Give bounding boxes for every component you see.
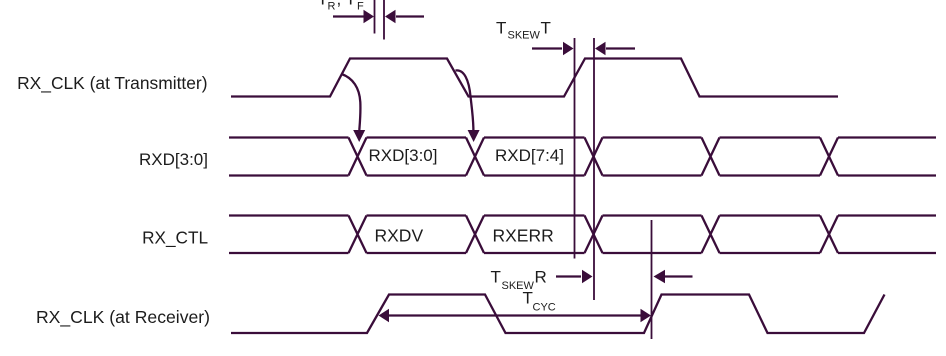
svg-text:CYC: CYC	[533, 302, 556, 314]
svg-text:RXDV: RXDV	[375, 226, 424, 246]
svg-text:RXD[3:0]: RXD[3:0]	[139, 150, 208, 169]
svg-text:RXERR: RXERR	[493, 226, 554, 246]
svg-text:RX_CLK (at Receiver): RX_CLK (at Receiver)	[36, 307, 210, 328]
svg-text:RX_CTL: RX_CTL	[142, 228, 208, 248]
svg-text:T: T	[318, 0, 328, 9]
svg-text:T: T	[541, 19, 551, 38]
svg-text:,: ,	[337, 0, 342, 9]
svg-text:RX_CLK (at Transmitter): RX_CLK (at Transmitter)	[17, 73, 207, 93]
svg-text:RXD[7:4]: RXD[7:4]	[495, 146, 564, 165]
svg-text:R: R	[535, 268, 547, 287]
svg-text:F: F	[357, 1, 364, 13]
svg-text:T: T	[491, 268, 501, 287]
svg-text:T: T	[496, 19, 506, 38]
svg-text:RXD[3:0]: RXD[3:0]	[369, 146, 438, 165]
svg-text:SKEW: SKEW	[502, 280, 535, 292]
svg-text:T: T	[346, 0, 356, 9]
svg-text:SKEW: SKEW	[508, 30, 541, 42]
svg-text:R: R	[328, 1, 336, 13]
